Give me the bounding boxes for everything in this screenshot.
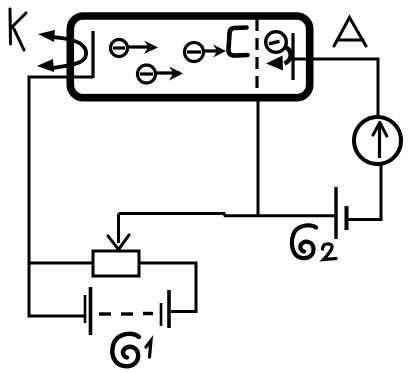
battery G1 right short plate <box>160 303 163 326</box>
wire left vertical <box>28 76 31 317</box>
electrode K (cathode plate) <box>91 31 94 78</box>
electron e1 <box>111 40 150 57</box>
electron e4 (deflected) <box>266 32 287 53</box>
filament curly arrow <box>52 37 86 68</box>
wire pot left <box>28 262 94 265</box>
label C (grid) <box>228 28 247 56</box>
battery G1 dashes <box>99 312 153 316</box>
electrode A (anode plate) <box>291 33 294 80</box>
meter needle arrow <box>378 126 381 158</box>
battery G2 long plate <box>334 187 337 239</box>
battery G1 left short plate <box>84 295 87 323</box>
wire anode to meter <box>294 58 378 61</box>
label K <box>10 9 26 50</box>
curved deflection arrow <box>284 46 291 64</box>
meter G (galvanometer) <box>354 117 401 164</box>
dashed grid line <box>255 19 258 100</box>
electron e3 <box>185 43 218 62</box>
wire bottom to G1 <box>28 315 85 318</box>
wire meter to G2 <box>380 165 383 222</box>
electron e2 <box>138 65 181 83</box>
wire cathode lead horizontal <box>28 76 93 79</box>
label G1 <box>112 334 139 366</box>
battery G1 right long plate <box>167 290 171 328</box>
tube envelope (rounded rect) <box>70 16 309 98</box>
label G2 <box>292 225 316 258</box>
label A <box>334 18 366 47</box>
potentiometer R <box>93 251 139 276</box>
filament arrowhead upper <box>38 30 55 42</box>
wire pot right <box>139 262 196 265</box>
filament arrowhead lower <box>37 59 54 72</box>
battery G1 left long plate <box>89 287 93 335</box>
wiper arrow <box>117 214 120 244</box>
wire from tube center down <box>257 99 260 215</box>
wire middle horizontal <box>119 214 337 216</box>
battery G2 short plate <box>345 206 349 230</box>
wire right down to G1 <box>171 262 196 312</box>
